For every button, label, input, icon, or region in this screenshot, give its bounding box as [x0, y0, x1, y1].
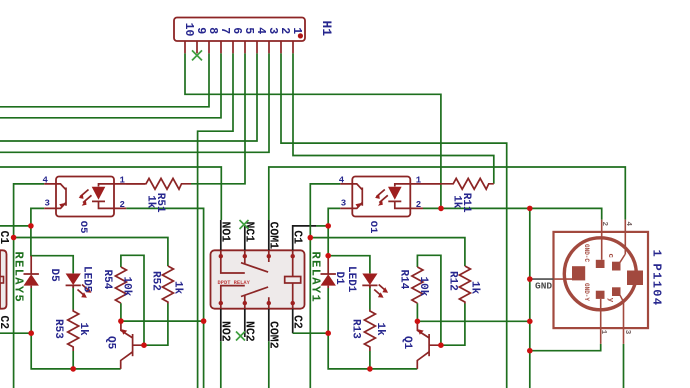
wire COM1 net to DIN pin4 [269, 167, 626, 220]
svg-text:4: 4 [43, 175, 49, 185]
svg-text:10: 10 [182, 23, 195, 37]
svg-text:NO2: NO2 [218, 321, 231, 342]
svg-text:2: 2 [416, 200, 421, 210]
svg-text:1k: 1k [145, 195, 157, 209]
resistor R52 [150, 266, 184, 304]
wire pin8 left [0, 53, 209, 106]
no-connect X on NC1 [240, 220, 249, 229]
svg-text:Q1: Q1 [401, 336, 413, 350]
wire D1 branch top [328, 226, 370, 274]
svg-text:1: 1 [599, 330, 607, 335]
no-connect X on NC2 [236, 332, 245, 341]
svg-text:2: 2 [278, 27, 291, 34]
svg-text:4: 4 [624, 222, 632, 227]
svg-text:R14: R14 [398, 270, 410, 290]
svg-text:GND-Y: GND-Y [583, 283, 590, 301]
svg-text:COM1: COM1 [266, 222, 279, 250]
diode D5 [24, 256, 61, 288]
GND pin line and label [530, 278, 554, 280]
diode D1 [321, 256, 346, 288]
svg-text:c: c [606, 254, 614, 259]
svg-text:3: 3 [45, 199, 50, 209]
svg-text:1: 1 [290, 27, 303, 34]
wire R54 bottom [120, 303, 122, 321]
svg-text:2: 2 [120, 200, 125, 210]
svg-text:C2: C2 [0, 315, 10, 329]
wire GND rail [529, 208, 531, 388]
svg-text:5: 5 [242, 27, 255, 34]
resistor R54 [101, 267, 132, 303]
svg-text:LED1: LED1 [345, 266, 357, 293]
wire O1 pin2 / GND net [423, 208, 602, 219]
svg-text:4: 4 [339, 175, 345, 185]
svg-text:RELAY5: RELAY5 [12, 252, 26, 304]
svg-text:D1: D1 [333, 272, 345, 286]
svg-text:y: y [606, 298, 614, 303]
svg-text:R13: R13 [350, 319, 362, 339]
wire R52 bottom to Q5 base [144, 304, 168, 346]
optocoupler O1 [339, 175, 442, 233]
resistor R14 [398, 267, 429, 303]
svg-text:O1: O1 [367, 221, 379, 234]
svg-text:1k: 1k [77, 323, 89, 337]
relay DPDT RELAY1 [211, 220, 329, 388]
svg-text:R54: R54 [101, 270, 113, 290]
wire pin10 to GND net [185, 53, 441, 208]
svg-text:1k: 1k [469, 281, 481, 295]
wire pin5 to R51 [191, 53, 245, 183]
svg-text:C1: C1 [290, 230, 303, 244]
svg-text:1k: 1k [374, 323, 386, 337]
wire DIN pin1 to GND rail [530, 344, 601, 351]
svg-text:NO1: NO1 [218, 222, 231, 243]
wire R14 bottom [416, 303, 418, 321]
wire pin1 to R11 [293, 53, 494, 183]
wire emitter rail ch1 [417, 320, 529, 322]
svg-text:6: 6 [230, 27, 243, 34]
svg-text:1: 1 [120, 175, 126, 185]
svg-text:H1: H1 [319, 21, 334, 37]
svg-text:R52: R52 [150, 271, 162, 291]
svg-text:3: 3 [266, 27, 279, 34]
wire D1 bottom / C2 net [328, 288, 417, 369]
wire pin4 left [0, 53, 257, 141]
svg-text:1k: 1k [172, 281, 184, 295]
svg-text:DPDT RELAY: DPDT RELAY [218, 280, 251, 286]
svg-text:D5: D5 [48, 269, 60, 283]
svg-text:O5: O5 [77, 221, 89, 234]
wire D5 bottom / C2 net ch5 [0, 288, 121, 369]
svg-text:GND: GND [535, 281, 552, 292]
resistor R53 [52, 310, 89, 352]
LED LED5 [66, 266, 93, 298]
svg-text:LED5: LED5 [81, 266, 93, 293]
svg-text:3: 3 [623, 330, 631, 335]
wire emitter rail ch5 [121, 320, 204, 322]
wire pin3 left [0, 53, 269, 152]
svg-text:C2: C2 [290, 315, 303, 329]
wire R12 bottom to Q1 base [441, 304, 465, 346]
svg-text:1: 1 [416, 175, 422, 185]
wire O5 pin3 down [31, 208, 44, 226]
transistor Q1 [401, 321, 441, 369]
svg-text:1: 1 [650, 250, 664, 257]
LED LED1 [345, 266, 388, 298]
wire pin6 down [198, 53, 233, 388]
wire rail to R12 top [310, 238, 465, 266]
wire LED1-R13 [369, 285, 371, 369]
svg-text:1k: 1k [451, 195, 463, 209]
svg-text:P1104: P1104 [650, 264, 664, 307]
resistor R12 [447, 266, 481, 304]
relay RELAY5 box edge (left image border) [0, 250, 7, 308]
wire R54 jog [121, 255, 144, 345]
svg-text:7: 7 [218, 27, 231, 34]
wire D5 branch top [31, 226, 73, 274]
svg-text:10k: 10k [417, 277, 429, 297]
svg-text:8: 8 [206, 27, 219, 34]
svg-text:10k: 10k [120, 277, 132, 297]
wire R14 jog [417, 255, 441, 345]
wire LED5-R53 [72, 285, 74, 369]
wire C1 relay5 bend [0, 225, 31, 227]
wire pin2 down right [281, 53, 507, 388]
resistor R11 [441, 178, 494, 213]
svg-text:R53: R53 [52, 319, 64, 339]
resistor R51 [126, 178, 191, 213]
svg-text:3: 3 [341, 199, 346, 209]
wire O1 pin3 down [328, 208, 340, 226]
svg-text:COM2: COM2 [266, 321, 279, 349]
svg-text:2: 2 [600, 222, 608, 227]
svg-text:R12: R12 [447, 271, 459, 291]
wire DIN pin3 down [623, 344, 625, 388]
wire NO1 net [0, 167, 221, 220]
wire O5 pin4 rail / RELAY5 net [14, 184, 45, 388]
wire pin7 left [0, 53, 221, 117]
svg-text:9: 9 [194, 27, 207, 34]
svg-text:GND-C: GND-C [583, 244, 590, 262]
svg-text:4: 4 [254, 27, 267, 34]
connector P1104 mini-DIN [554, 220, 664, 344]
resistor R13 [350, 310, 386, 352]
header H1 [174, 18, 334, 54]
svg-text:Q5: Q5 [105, 336, 117, 350]
wire O5 pin2 to GND5 rail [126, 208, 203, 388]
wire rail to R52 top [14, 238, 168, 267]
wire O1 pin4 rail / RELAY1 net [310, 184, 340, 388]
no-connect X on H1 pin 9 [192, 50, 202, 60]
transistor Q5 [105, 321, 145, 369]
svg-text:C1: C1 [0, 231, 10, 245]
optocoupler O5 [43, 175, 146, 233]
